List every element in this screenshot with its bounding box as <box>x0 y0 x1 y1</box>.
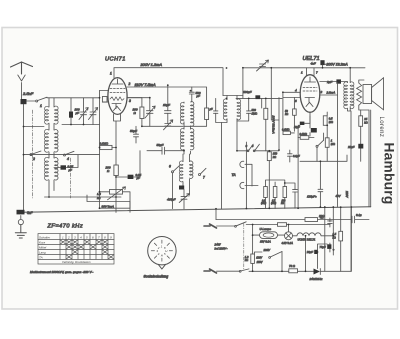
capacitor C14 <box>293 190 298 192</box>
wire lamp link <box>278 234 285 236</box>
table X marks row TA <box>67 255 114 259</box>
svg-text:Kurz: Kurz <box>39 240 46 244</box>
wire power rail <box>249 270 351 272</box>
wire L5 links <box>184 122 191 154</box>
capacitor C1 2.5nF <box>21 99 27 104</box>
capacitor C8 50uF <box>162 147 165 154</box>
coil L2b <box>55 130 58 152</box>
capacitor C10 IF1 right <box>247 111 251 113</box>
tube U2 top pins <box>307 68 315 76</box>
coil L3a <box>45 157 49 180</box>
ground <box>15 225 26 238</box>
capacitor C21 <box>352 216 369 223</box>
wire R13 leads <box>298 137 314 139</box>
wire R19 lead <box>184 120 207 127</box>
wire lamp drop <box>288 225 290 232</box>
coil L1a <box>45 106 49 124</box>
capacitor C7 padder <box>179 186 184 190</box>
resistor R2 0.1Mohm <box>100 145 112 149</box>
switch S12 selector <box>269 257 271 259</box>
tube U2 heater <box>306 102 313 106</box>
tube U2 anode <box>305 77 316 82</box>
switch S4 <box>64 154 66 156</box>
capacitor C12 10uF <box>300 122 305 125</box>
switch S11b <box>239 270 241 272</box>
svg-text:µF: µF <box>76 111 80 115</box>
svg-text:150V: 150V <box>257 261 263 264</box>
oscillator coil L6a <box>179 161 183 182</box>
svg-text:kΩ: kΩ <box>245 258 248 262</box>
svg-text:465pF: 465pF <box>167 198 176 202</box>
oscillator coil L5a <box>180 129 184 150</box>
wire detector line <box>237 150 279 152</box>
wire det rails <box>246 98 310 208</box>
switch S2 <box>30 154 32 156</box>
svg-text:TA: TA <box>39 255 43 259</box>
wire T1 top <box>349 68 351 83</box>
wire L4 top leads <box>183 102 185 103</box>
svg-text:MΩ: MΩ <box>329 120 333 124</box>
wire CT1 leads <box>83 98 85 125</box>
wire CT5 leads <box>183 190 185 209</box>
wire R16 top <box>252 225 254 255</box>
table X marks row Lang <box>73 250 108 254</box>
tube socket pin numbers <box>156 245 168 258</box>
gang dash line a <box>32 110 34 198</box>
svg-text:120V: 120V <box>256 257 262 260</box>
resistor R11 0.5M <box>323 116 327 126</box>
trimmer CT6 <box>257 60 269 71</box>
switch gang dash <box>243 224 245 270</box>
resistor R13 0.1M <box>300 136 309 140</box>
svg-text:200V 1.2mA: 200V 1.2mA <box>140 62 163 67</box>
wire anode line 2 <box>243 68 365 99</box>
output transformer T1 winding a <box>344 82 348 109</box>
mains plug prong b <box>204 269 217 273</box>
antenna <box>11 62 33 74</box>
svg-text:10µF: 10µF <box>163 103 170 107</box>
trimmer CT3 <box>145 106 155 118</box>
wire mains a <box>217 225 235 227</box>
tube U1 grids <box>110 89 125 93</box>
wire L6 leads <box>183 154 190 195</box>
svg-text:Sockelschaltung: Sockelschaltung <box>144 274 169 278</box>
wire heater line <box>216 219 352 221</box>
wire heater drop <box>215 209 217 220</box>
svg-text:kΩ: kΩ <box>97 196 100 200</box>
svg-text:240/10Hz: 240/10Hz <box>309 277 323 281</box>
resistor R16 dropper <box>251 254 255 263</box>
svg-text:76 Ω: 76 Ω <box>289 264 296 268</box>
switch S9b <box>253 150 255 152</box>
tube socket pins <box>151 240 172 261</box>
jack TA upper <box>240 161 244 167</box>
svg-text:220V: 220V <box>263 248 272 252</box>
wire chassis bus <box>21 207 371 213</box>
wire osc grid line <box>147 150 184 152</box>
tube U1 hexode grid <box>110 97 124 100</box>
wire pin5 <box>283 97 300 99</box>
wire CT4 leads <box>167 125 169 127</box>
wire grid top rail <box>47 98 100 107</box>
capacitor C24 <box>328 221 333 224</box>
capacitor C23 20uF <box>314 250 318 254</box>
svg-text:1: 1 <box>40 104 42 108</box>
capacitor C5 0.25uF <box>128 175 134 179</box>
wire CT2 leads <box>92 98 94 125</box>
svg-text:µF: µF <box>210 107 213 111</box>
speaker frame <box>363 85 372 104</box>
svg-text:Meßinstrument 1000Ω/V, gem. ge: Meßinstrument 1000Ω/V, gem. gegen -220 V… <box>30 270 93 274</box>
tube U2 cathode <box>305 98 315 103</box>
wire 2.8mA line <box>320 94 338 96</box>
IF1 winding b <box>237 99 241 120</box>
wire lamp left <box>253 234 260 236</box>
capacitor C17 2uF <box>311 128 317 133</box>
svg-text:Mittel: Mittel <box>39 245 47 249</box>
trimmer CT2 <box>89 108 98 120</box>
wire feed line <box>87 195 130 208</box>
IF1 winding a <box>223 99 227 120</box>
wire choke bottom <box>359 105 369 110</box>
output transformer T1 winding b <box>350 82 354 109</box>
svg-text:2: 2 <box>320 90 323 94</box>
wire band bus mid <box>24 154 100 156</box>
svg-text:4.8V 0.1A: 4.8V 0.1A <box>282 241 294 245</box>
coil L2a <box>45 129 49 152</box>
table X marks row Mittel <box>67 245 108 249</box>
resistor R8 <box>264 187 268 198</box>
wire R7 leads <box>268 151 270 209</box>
wire rectifier columns <box>318 207 352 271</box>
svg-text:4nF: 4nF <box>311 61 316 65</box>
svg-text:100µF: 100µF <box>243 90 252 94</box>
wire R4 leads <box>265 98 267 150</box>
tube U1 pin1 <box>113 68 115 78</box>
oscillator coil L4a <box>180 103 184 124</box>
wire cathode link <box>142 125 183 127</box>
plug hook <box>18 216 23 225</box>
resistor R15 2k <box>305 218 318 222</box>
svg-text:3: 3 <box>129 99 131 103</box>
svg-text:bei 220V~: bei 220V~ <box>215 247 228 251</box>
resistor R17 76ohm <box>289 269 298 273</box>
fuse F1 <box>278 223 287 227</box>
wire C19 lead <box>319 192 321 207</box>
resistor R10 <box>283 187 287 198</box>
wire pin rail <box>279 92 294 150</box>
svg-text:110V 7.5mA: 110V 7.5mA <box>135 82 157 87</box>
resistor R4 <box>264 108 268 119</box>
wire C14 leads <box>285 183 295 208</box>
wire coil link 2 <box>49 152 54 158</box>
wire C15 lead <box>322 65 324 68</box>
wire R3 leads <box>115 176 117 213</box>
potentiometer P1 volume <box>110 190 123 195</box>
wire mid link <box>24 125 100 127</box>
svg-text:125µF+: 125µF+ <box>307 195 317 199</box>
wire resistor row leads <box>266 180 285 208</box>
svg-text:~200V 13.2mA: ~200V 13.2mA <box>325 63 349 67</box>
switch S9a <box>247 150 249 152</box>
svg-text:Hamburg: Hamburg <box>382 143 397 205</box>
resistor R14 1M <box>325 138 329 148</box>
table X marks row Kurz <box>61 240 114 259</box>
svg-text:2.8mA: 2.8mA <box>326 91 336 95</box>
trimmer CT1 <box>79 108 88 120</box>
resistor R18 1.5k <box>339 231 343 241</box>
svg-text:ZF=470 kHz: ZF=470 kHz <box>47 224 84 230</box>
svg-text:kΩ: kΩ <box>364 120 367 124</box>
svg-text:(MΩ): (MΩ) <box>271 203 276 205</box>
svg-text:500: 500 <box>252 108 257 112</box>
wire CT3 leads <box>127 98 150 127</box>
tube U2 grids <box>303 88 317 92</box>
svg-text:4Ω: 4Ω <box>320 215 323 219</box>
capacitor C2 <box>69 112 73 118</box>
resistor R9 <box>273 187 277 198</box>
wire R14 leads <box>326 112 328 161</box>
choke zigzag <box>357 83 362 105</box>
svg-text:kΩ: kΩ <box>281 203 284 205</box>
switch S6 <box>172 171 174 173</box>
resistor R3 200ohm <box>114 165 118 176</box>
tube socket notch <box>158 264 165 269</box>
wire P1 leads <box>100 192 131 212</box>
capacitor C22 70uF <box>327 244 331 249</box>
wire C13 leads <box>289 150 291 162</box>
wire R2 leads <box>112 147 116 149</box>
capacitor C19 <box>318 189 323 191</box>
scale lamp box <box>260 232 278 239</box>
wire speaker return <box>369 110 371 207</box>
wire IF1 tops <box>227 96 243 100</box>
coil L1b <box>55 106 59 124</box>
jack TA lower <box>240 182 244 188</box>
switch S7 <box>199 174 201 176</box>
capacitor C18 25uF <box>358 144 363 149</box>
svg-text:18V 0.1A: 18V 0.1A <box>260 240 271 244</box>
svg-text:2.5nF: 2.5nF <box>22 91 34 96</box>
svg-text:U-Lampe: U-Lampe <box>260 227 272 231</box>
wire pin4 <box>283 91 300 93</box>
tube U2 UEL71 envelope <box>300 75 320 113</box>
wire antenna to band switch <box>27 100 36 102</box>
wire bottom link <box>45 196 122 198</box>
tube U1 UCH71 envelope <box>108 78 127 115</box>
resistor R6 <box>283 131 290 134</box>
svg-text:0.1µF: 0.1µF <box>293 154 300 158</box>
wire anode to IF1 <box>223 95 237 97</box>
pilot lamp B1 <box>285 232 293 240</box>
wire IF1 bottoms <box>222 119 238 209</box>
svg-text:2: 2 <box>128 82 131 86</box>
capacitor C6 <box>165 111 172 114</box>
svg-text:Schalter: Schalter <box>39 235 51 239</box>
capacitor C9 IF1 left <box>214 111 218 113</box>
mains plug prong a <box>204 224 217 228</box>
diode D1 <box>314 269 321 275</box>
svg-text:Verbindg. Drucktasten: Verbindg. Drucktasten <box>62 260 91 264</box>
tube U1 anode <box>112 79 123 84</box>
capacitor C13 <box>288 154 293 156</box>
svg-text:4: 4 <box>67 157 69 161</box>
svg-text:kΩ: kΩ <box>285 113 288 116</box>
tube U1 left pins <box>100 91 109 103</box>
oscillator coil L4b <box>191 102 194 127</box>
wire right rail <box>99 91 101 209</box>
wire S6 lead <box>172 173 174 209</box>
coil L3b <box>55 158 58 180</box>
wire choke top <box>359 80 364 83</box>
tube U1 grid box <box>102 97 107 103</box>
wire C2 leads <box>70 98 72 125</box>
wire TA leads <box>245 164 258 186</box>
svg-text:UCH71 UEL71: UCH71 UEL71 <box>298 238 316 242</box>
pushbutton table frame <box>38 234 114 264</box>
capacitor C3 0.25uF <box>61 165 67 169</box>
resistor R1 100ohm <box>140 107 144 119</box>
capacitor C15 4nF <box>320 60 324 65</box>
wire C6 leads <box>167 85 169 123</box>
wire C16 leads <box>320 82 348 83</box>
switch S11a <box>235 225 237 227</box>
table header texts <box>39 235 112 264</box>
svg-text:pF: pF <box>196 94 201 98</box>
wire feedback line <box>300 155 347 189</box>
wire R1 leads <box>141 98 143 127</box>
capacitor C4 <box>134 126 139 143</box>
svg-text:6: 6 <box>169 165 171 169</box>
tube U1 cathode <box>112 104 121 109</box>
svg-text:kΩ: kΩ <box>273 155 276 159</box>
tube U1 bottom pins <box>114 114 121 165</box>
resistor R7 150k <box>267 152 271 161</box>
wire C5 leads <box>116 151 140 177</box>
wire R16 bottom <box>252 263 254 271</box>
svg-text:1: 1 <box>110 72 112 76</box>
heater chain <box>293 233 334 236</box>
trimmer CT5 465pF <box>179 194 189 203</box>
trimmer CT4 <box>164 120 173 130</box>
tube U1 pin2 <box>127 87 207 108</box>
svg-text:1MΩ: 1MΩ <box>252 111 258 115</box>
wire heater mid drop <box>305 236 307 271</box>
wire R12 leads <box>360 110 362 161</box>
svg-text:0.1MΩ: 0.1MΩ <box>100 142 109 146</box>
switch S1 <box>36 100 38 102</box>
wire screen rail <box>271 68 279 120</box>
svg-text:130V 88.5mA: 130V 88.5mA <box>272 116 276 134</box>
wire C17 leads <box>309 112 311 136</box>
oscillator coil L5b <box>191 129 194 150</box>
tube U1 heater <box>114 106 121 110</box>
resistor R5 <box>293 109 297 115</box>
capacitor C25 500pF <box>189 87 194 102</box>
wire coil link 1 <box>49 98 54 130</box>
capacitor C9 leads <box>216 98 222 122</box>
svg-text:0.1µ: 0.1µ <box>356 213 362 217</box>
gang dash line b <box>70 158 72 198</box>
capacitor C16 2uF <box>336 79 341 83</box>
svg-text:0.1MΩ: 0.1MΩ <box>300 133 308 136</box>
svg-text:2: 2 <box>67 235 70 239</box>
wire T1 bottoms <box>348 107 352 272</box>
resistor R12 25k <box>359 116 363 127</box>
scale lamp inner <box>263 233 274 237</box>
svg-text:MΩ: MΩ <box>331 142 335 146</box>
svg-text:86V 8mA: 86V 8mA <box>102 204 114 208</box>
wire antenna rail down to bus <box>23 104 25 212</box>
svg-text:7: 7 <box>203 176 205 180</box>
wire coil bottoms <box>49 180 54 197</box>
capacitor C11 100uF <box>255 95 260 99</box>
svg-text:10µF: 10µF <box>294 126 300 129</box>
svg-text:UCH71: UCH71 <box>105 57 126 63</box>
wire tap 220 <box>254 252 262 254</box>
svg-text:25µF: 25µF <box>347 145 355 149</box>
switch S10 <box>316 145 318 147</box>
wire screen line <box>236 97 282 99</box>
svg-text:20µF: 20µF <box>306 250 314 254</box>
wire C3 leads <box>54 155 78 168</box>
svg-text:Lang: Lang <box>39 250 46 254</box>
tube socket circle <box>148 237 176 265</box>
wire 200V anode line <box>114 68 223 96</box>
svg-text:Lorenz: Lorenz <box>378 117 384 138</box>
wire mains b <box>217 270 240 272</box>
svg-text:220V: 220V <box>345 190 349 199</box>
wire mains top <box>246 224 330 226</box>
capacitor C20 5nF <box>17 210 25 215</box>
speaker cone <box>372 78 384 110</box>
capacitor C10 leads <box>237 98 249 121</box>
svg-text:50µF: 50µF <box>157 143 164 147</box>
tube U1 pin3 <box>127 97 142 99</box>
oscillator coil L6b <box>190 161 193 178</box>
wire B+ rail <box>337 82 339 208</box>
wire selector out <box>281 252 283 272</box>
wire S10 leads <box>317 133 324 161</box>
antenna plug connector <box>18 75 25 99</box>
resistor R19 <box>205 108 209 120</box>
